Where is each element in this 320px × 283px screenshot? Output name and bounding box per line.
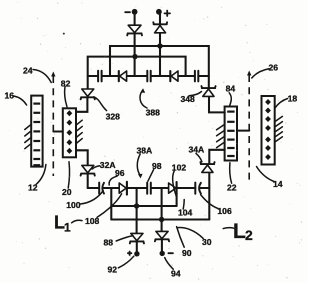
svg-text:328: 328: [106, 111, 121, 121]
svg-text:14: 14: [273, 179, 283, 189]
svg-text:102: 102: [172, 162, 187, 172]
svg-text:348: 348: [181, 94, 196, 104]
svg-text:88: 88: [104, 237, 114, 247]
svg-text:94: 94: [171, 268, 181, 278]
svg-text:12: 12: [28, 183, 38, 193]
svg-text:18: 18: [288, 94, 298, 104]
svg-text:24: 24: [23, 66, 33, 76]
svg-text:22: 22: [227, 183, 237, 193]
svg-text:20: 20: [62, 187, 72, 197]
svg-text:100: 100: [66, 200, 81, 210]
svg-text:32A: 32A: [100, 160, 116, 170]
svg-text:82: 82: [61, 79, 71, 89]
svg-text:104: 104: [178, 207, 193, 217]
svg-text:84: 84: [226, 84, 236, 94]
svg-text:38A: 38A: [137, 145, 153, 155]
svg-text:108: 108: [85, 216, 100, 226]
svg-text:34A: 34A: [189, 144, 205, 154]
svg-text:96: 96: [115, 168, 125, 178]
svg-text:90: 90: [182, 248, 192, 258]
svg-text:16: 16: [5, 91, 15, 101]
svg-text:30: 30: [202, 237, 212, 247]
svg-text:388: 388: [146, 107, 161, 117]
svg-text:2: 2: [245, 227, 253, 243]
svg-text:92: 92: [108, 264, 118, 274]
svg-text:98: 98: [152, 161, 162, 171]
svg-text:1: 1: [64, 221, 71, 235]
svg-text:26: 26: [269, 63, 279, 73]
svg-text:106: 106: [217, 206, 232, 216]
